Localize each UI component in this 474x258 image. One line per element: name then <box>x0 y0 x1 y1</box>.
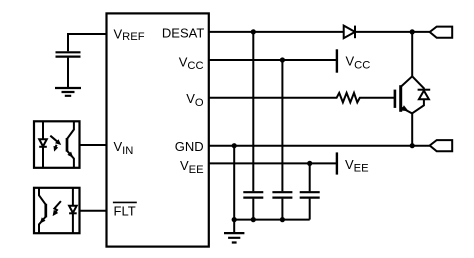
svg-text:FLT: FLT <box>114 204 136 219</box>
svg-text:GND: GND <box>175 139 204 154</box>
svg-text:DESAT: DESAT <box>162 26 204 41</box>
